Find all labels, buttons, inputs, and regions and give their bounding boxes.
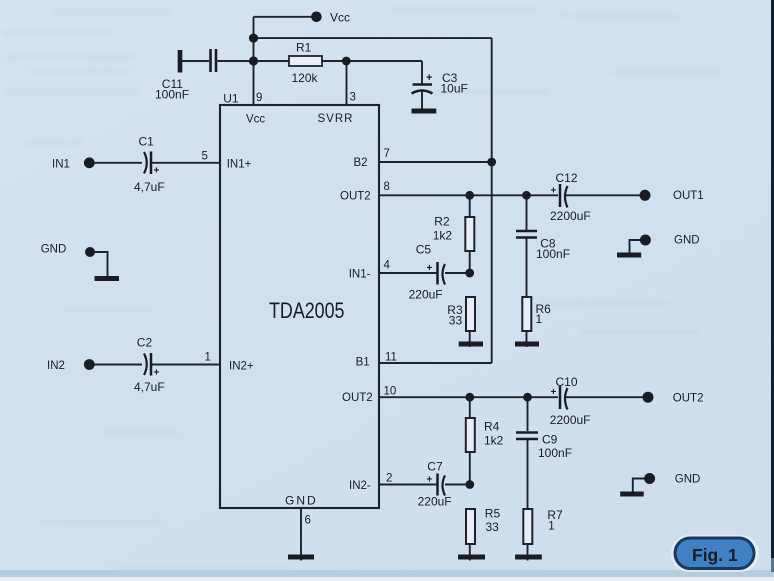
terminal OUT1 <box>640 190 651 201</box>
capacitor C1 <box>144 152 151 175</box>
svg-text:4,7uF: 4,7uF <box>134 180 165 194</box>
resistor R6 <box>522 297 531 331</box>
svg-text:R1: R1 <box>296 41 312 55</box>
wire R7 bottom lead <box>527 544 529 561</box>
op-amp IC U1 body <box>220 105 379 508</box>
svg-text:100nF: 100nF <box>536 247 570 261</box>
svg-text:10uF: 10uF <box>441 82 468 96</box>
ground bar R7 <box>515 555 542 560</box>
resistor R1 <box>289 56 322 66</box>
svg-text:120k: 120k <box>292 71 319 85</box>
svg-text:1: 1 <box>536 312 543 326</box>
svg-text:IN1-: IN1- <box>349 269 371 281</box>
wire C8 to R6 <box>526 239 528 298</box>
svg-text:7: 7 <box>384 148 390 160</box>
svg-text:IN2-: IN2- <box>349 480 371 492</box>
wire pin7 B2 <box>379 161 492 163</box>
svg-text:IN2+: IN2+ <box>229 360 254 372</box>
node junction dot C5 R2 R3 <box>465 269 474 278</box>
wire R6 bottom lead <box>526 331 528 347</box>
svg-text:9: 9 <box>256 92 262 104</box>
wire R4 bottom lead <box>469 452 471 485</box>
svg-text:B1: B1 <box>356 357 370 369</box>
wire y38 feedback to B2 vertical <box>254 37 492 39</box>
node junction dot R1 right <box>342 57 351 66</box>
wire C11 to R1 <box>218 60 290 62</box>
svg-text:Fig. 1: Fig. 1 <box>692 545 738 565</box>
ground bar pin6 <box>288 555 314 560</box>
svg-text:4,7uF: 4,7uF <box>134 380 165 394</box>
wire GND1 left hook <box>90 252 108 277</box>
svg-text:GND: GND <box>674 235 700 247</box>
bottom darker band <box>0 570 774 577</box>
resistor R7 <box>523 509 532 544</box>
svg-text:6: 6 <box>305 515 311 527</box>
wire C1 to pin5 <box>152 162 220 164</box>
wire vertical x491.7 down to B1 <box>491 38 493 363</box>
terminal GND left <box>85 247 95 257</box>
ground bar R5 <box>458 555 485 560</box>
svg-text:+: + <box>427 475 433 486</box>
svg-text:IN1: IN1 <box>52 159 70 171</box>
wire C2 to pin1 <box>152 364 220 366</box>
svg-text:+: + <box>154 368 160 379</box>
svg-text:3: 3 <box>350 92 356 104</box>
svg-text:SVRR: SVRR <box>318 113 354 125</box>
wire C7 to R4R5 node <box>445 484 470 486</box>
wire C5 to R2R3 node <box>445 272 470 274</box>
svg-text:GND: GND <box>41 244 67 256</box>
svg-text:+: + <box>426 72 432 84</box>
resistor R3 <box>466 297 475 331</box>
terminal GND right top <box>640 235 651 246</box>
wire C9 to R7 <box>527 440 529 510</box>
svg-text:33: 33 <box>449 314 463 328</box>
wire Vcc horizontal <box>254 16 313 18</box>
resistor R2 <box>465 217 474 251</box>
node junction dot B2 <box>487 158 496 167</box>
svg-text:GND: GND <box>285 494 318 508</box>
svg-text:1k2: 1k2 <box>433 229 453 243</box>
wire R4 top lead <box>469 397 471 418</box>
wire vertical x253.5 Vcc to pin9 <box>253 17 255 105</box>
svg-text:8: 8 <box>384 181 390 193</box>
svg-text:1k2: 1k2 <box>484 434 504 448</box>
node junction dot x253.5 y38 <box>249 34 258 43</box>
wire pin2 to C7 <box>379 484 437 486</box>
svg-text:OUT2: OUT2 <box>673 393 704 405</box>
capacitor C11 <box>180 49 216 73</box>
svg-text:R5: R5 <box>485 507 501 521</box>
capacitor C10 <box>560 386 568 410</box>
wire GND2 right hook <box>630 240 646 253</box>
svg-text:IN2: IN2 <box>47 360 65 372</box>
svg-text:220uF: 220uF <box>418 495 452 509</box>
resistor R4 <box>466 418 475 452</box>
svg-text:GND: GND <box>675 474 701 486</box>
svg-text:R4: R4 <box>484 420 500 434</box>
svg-text:33: 33 <box>486 520 500 534</box>
capacitor C12 <box>560 184 568 208</box>
terminal GND right bottom <box>644 473 655 484</box>
svg-text:1: 1 <box>205 352 211 364</box>
wire pin11 B1 <box>379 362 492 364</box>
resistor R5 <box>466 509 475 544</box>
svg-text:OUT1: OUT1 <box>673 190 704 202</box>
wire C3 top lead <box>421 61 423 84</box>
ground bar R6 <box>515 342 539 347</box>
capacitor C9 <box>516 433 538 440</box>
svg-text:OUT2: OUT2 <box>340 191 371 203</box>
wire pin6 vertical <box>300 508 302 561</box>
svg-text:10: 10 <box>384 386 397 398</box>
svg-text:C5: C5 <box>416 243 432 257</box>
svg-text:1: 1 <box>548 519 555 533</box>
node junction dot x253.5 y61 <box>249 56 258 65</box>
svg-text:OUT2: OUT2 <box>342 392 373 404</box>
wire C10 to OUT2 terminal <box>566 396 645 398</box>
right dark page edge <box>771 0 774 558</box>
wire C12 to OUT1 <box>566 194 645 196</box>
node junction dot R2 top <box>465 191 474 200</box>
svg-text:Vcc: Vcc <box>330 11 350 25</box>
wire C8 top lead <box>526 195 528 230</box>
svg-text:C12: C12 <box>556 171 578 185</box>
svg-text:C10: C10 <box>556 375 578 389</box>
svg-text:5: 5 <box>202 151 208 163</box>
wire C9 top lead <box>527 397 529 431</box>
node junction dot C7 R4 R5 <box>465 480 474 489</box>
wire R2 top lead <box>469 195 471 217</box>
svg-text:Vcc: Vcc <box>246 114 265 126</box>
svg-text:2: 2 <box>386 473 392 485</box>
terminal IN1 <box>84 157 95 168</box>
svg-text:11: 11 <box>385 352 397 364</box>
wire pin3 vertical <box>346 61 348 105</box>
wire R2 bottom lead <box>469 251 471 273</box>
wire IN1 to C1 <box>92 162 142 164</box>
svg-text:100nF: 100nF <box>155 88 189 102</box>
terminal IN2 <box>84 359 95 370</box>
node junction dot R4 top <box>465 393 474 402</box>
terminal Vcc <box>311 11 322 22</box>
wire R5 bottom lead <box>469 544 471 561</box>
ground bar right top <box>617 253 641 258</box>
capacitor C3 <box>412 85 433 94</box>
svg-text:R2: R2 <box>434 215 450 229</box>
svg-text:C1: C1 <box>139 135 155 149</box>
wire C11 lead left <box>182 60 209 62</box>
capacitor C7 <box>438 474 446 496</box>
svg-text:+: + <box>551 186 557 197</box>
node junction dot C9 top <box>523 393 532 402</box>
capacitor C2 <box>144 353 151 376</box>
svg-text:C9: C9 <box>542 433 558 447</box>
ground bar C3 <box>412 109 437 114</box>
bottom light strip <box>0 577 774 581</box>
svg-text:220uF: 220uF <box>409 287 443 301</box>
svg-text:C7: C7 <box>427 459 443 473</box>
wire IN2 to C2 <box>92 364 142 366</box>
Fig. 1 badge <box>671 535 759 572</box>
svg-text:100nF: 100nF <box>538 446 572 460</box>
svg-text:+: + <box>154 166 160 177</box>
capacitor C5 <box>438 262 446 285</box>
svg-text:2200uF: 2200uF <box>550 413 591 427</box>
wire pin10 OUT2 to C10 <box>379 396 558 398</box>
wire R1 right to C3 corner <box>322 60 422 62</box>
svg-text:+: + <box>427 263 433 274</box>
ground bar right bottom <box>620 492 644 497</box>
terminal OUT2 <box>643 392 654 403</box>
svg-text:4: 4 <box>384 260 391 272</box>
wire GND3 right hook <box>633 479 649 493</box>
capacitor C8 <box>516 231 537 238</box>
ground bar GND left <box>95 276 120 281</box>
svg-text:U1: U1 <box>223 91 239 105</box>
node junction dot C8 top <box>522 191 531 200</box>
svg-text:C2: C2 <box>137 336 153 350</box>
wire R3 bottom lead <box>469 331 471 347</box>
svg-text:2200uF: 2200uF <box>550 209 591 223</box>
svg-text:IN1+: IN1+ <box>227 159 252 171</box>
svg-text:B2: B2 <box>354 157 368 169</box>
wire pin8 OUT2 to C12 <box>379 194 558 196</box>
wire pin4 to C5 <box>379 272 437 274</box>
svg-text:TDA2005: TDA2005 <box>269 298 345 323</box>
ground bar R3 <box>459 342 483 347</box>
wire C3 bottom lead <box>421 91 423 109</box>
